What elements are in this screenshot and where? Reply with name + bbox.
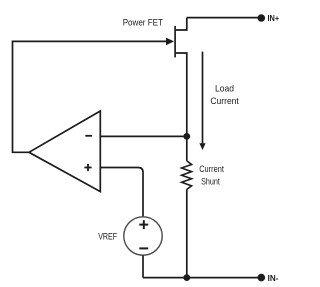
transistor Power FET gate bar — [174, 26, 176, 58]
wire top rail to IN+ terminal — [187, 17, 258, 19]
VREF plus sign — [139, 220, 148, 229]
wire shunt bottom to rail — [186, 189, 188, 277]
svg-text:Current: Current — [210, 96, 239, 106]
wire bottom rail to IN- terminal — [143, 277, 258, 279]
transistor source stub — [176, 53, 187, 161]
resistor current shunt — [182, 161, 192, 190]
wire feedback loop (op-amp output to FET gate) — [13, 41, 167, 152]
VREF minus sign — [139, 247, 148, 249]
node junction bottom rail — [183, 274, 190, 281]
svg-text:IN+: IN+ — [268, 14, 280, 23]
op-amp plus sign — [84, 164, 91, 171]
wire non-inverting input to VREF — [100, 168, 143, 218]
node junction at shunt top — [183, 133, 190, 140]
op-amp minus sign — [85, 135, 92, 137]
svg-text:Load: Load — [215, 83, 234, 93]
svg-text:Current: Current — [199, 164, 224, 174]
terminal IN- dot — [258, 274, 266, 282]
svg-text:VREF: VREF — [98, 232, 117, 243]
voltage source VREF — [124, 217, 162, 255]
gate arrowhead — [166, 38, 174, 46]
wire inverting input to shunt top node — [100, 135, 187, 137]
svg-text:Shunt: Shunt — [201, 176, 220, 186]
wire VREF bottom to bottom rail — [142, 255, 144, 277]
load current arrow — [202, 52, 204, 145]
transistor drain stub — [176, 18, 187, 30]
terminal IN+ dot — [258, 14, 266, 22]
svg-text:IN-: IN- — [268, 274, 279, 283]
svg-text:Power FET: Power FET — [123, 17, 163, 28]
op-amp U1 — [29, 111, 100, 192]
